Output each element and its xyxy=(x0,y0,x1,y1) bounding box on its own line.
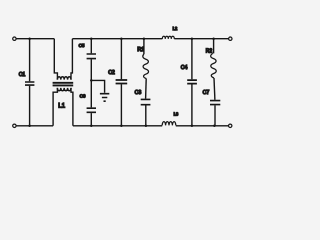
resistor R2 top lead xyxy=(213,39,215,54)
wire top-right from L2 to J3 xyxy=(174,38,228,40)
common-mode choke L1 core bars xyxy=(53,83,74,86)
capacitor C4 plates xyxy=(187,80,197,84)
output terminal J4 bottom-right xyxy=(229,124,232,127)
capacitor C3 plates xyxy=(141,99,151,104)
capacitor C1 plates xyxy=(25,82,34,85)
svg-text:L3: L3 xyxy=(174,111,179,116)
common-mode choke L1 bottom-right lead pin 4 xyxy=(71,88,73,126)
resistor R2 zigzag body xyxy=(211,53,217,78)
node top of R1 xyxy=(143,37,146,40)
capacitor C5 plates xyxy=(87,54,96,59)
wire R2 to C7 xyxy=(213,78,216,100)
svg-text:C7: C7 xyxy=(203,90,210,96)
inductor L2 coil in top line xyxy=(162,36,174,39)
common-mode choke L1 top-left lead pin 1 xyxy=(54,39,57,80)
common-mode choke L1 bottom-left lead pin 3 xyxy=(53,88,57,126)
ground symbol xyxy=(100,94,109,102)
capacitor C6 plates xyxy=(87,108,96,112)
node top of C1 xyxy=(28,37,31,40)
svg-text:C2: C2 xyxy=(108,70,115,76)
wire R1 to C3 xyxy=(145,79,148,99)
resistor R1 top lead xyxy=(143,39,145,54)
node top of R2 xyxy=(212,37,215,40)
svg-text:R1: R1 xyxy=(137,47,144,53)
node bottom of C4 xyxy=(191,125,194,128)
common-mode choke L1 primary winding xyxy=(57,77,71,80)
svg-text:C3: C3 xyxy=(135,90,142,96)
capacitor C1 leads xyxy=(29,39,31,126)
node bottom of C3 xyxy=(145,125,148,128)
capacitor C6 bottom lead xyxy=(90,113,92,126)
node bottom of C2 xyxy=(120,125,123,128)
wire bottom-left from J2 to choke L1 xyxy=(16,125,53,127)
capacitor C4 leads xyxy=(191,39,193,126)
svg-text:C6: C6 xyxy=(80,93,86,98)
capacitor C2 leads xyxy=(120,39,122,126)
capacitor C2 plates xyxy=(116,80,128,84)
wire node A to ground xyxy=(91,80,104,92)
common-mode choke L1 top-right lead pin 2 xyxy=(71,39,72,80)
capacitor C7 bottom lead xyxy=(214,105,216,125)
capacitor C7 plates xyxy=(210,101,220,105)
node bottom of C1 xyxy=(28,125,31,128)
wire top-middle from choke to L2 xyxy=(72,38,162,40)
node top of C5 xyxy=(90,37,93,40)
node bottom of C6 xyxy=(90,125,93,128)
output terminal J3 top-right xyxy=(229,37,232,40)
input terminal J1 top-left xyxy=(13,37,16,40)
node top of C2 xyxy=(120,37,123,40)
resistor R1 zigzag body xyxy=(143,54,149,79)
wire bottom-middle from choke to L3 xyxy=(73,125,162,127)
svg-text:C4: C4 xyxy=(181,65,188,71)
svg-text:L2: L2 xyxy=(173,26,178,31)
input terminal J2 bottom-left xyxy=(13,124,16,127)
wire C5 to node A xyxy=(90,59,92,107)
wire top-left from J1 to choke L1 xyxy=(16,38,54,40)
inductor L3 coil in bottom line xyxy=(162,122,176,126)
svg-text:L1: L1 xyxy=(58,103,65,110)
node top of C4 xyxy=(191,37,194,40)
node A junction of C5 C6 and ground xyxy=(90,79,93,82)
wire bottom-right from L3 to J4 xyxy=(176,125,229,127)
svg-text:C1: C1 xyxy=(19,72,26,78)
common-mode choke L1 secondary winding xyxy=(57,88,71,91)
node bottom of C7 xyxy=(213,125,216,128)
capacitor C3 bottom lead xyxy=(145,106,147,126)
capacitor C5 top lead xyxy=(90,39,92,54)
svg-text:C5: C5 xyxy=(79,43,85,48)
svg-text:R2: R2 xyxy=(206,49,213,55)
